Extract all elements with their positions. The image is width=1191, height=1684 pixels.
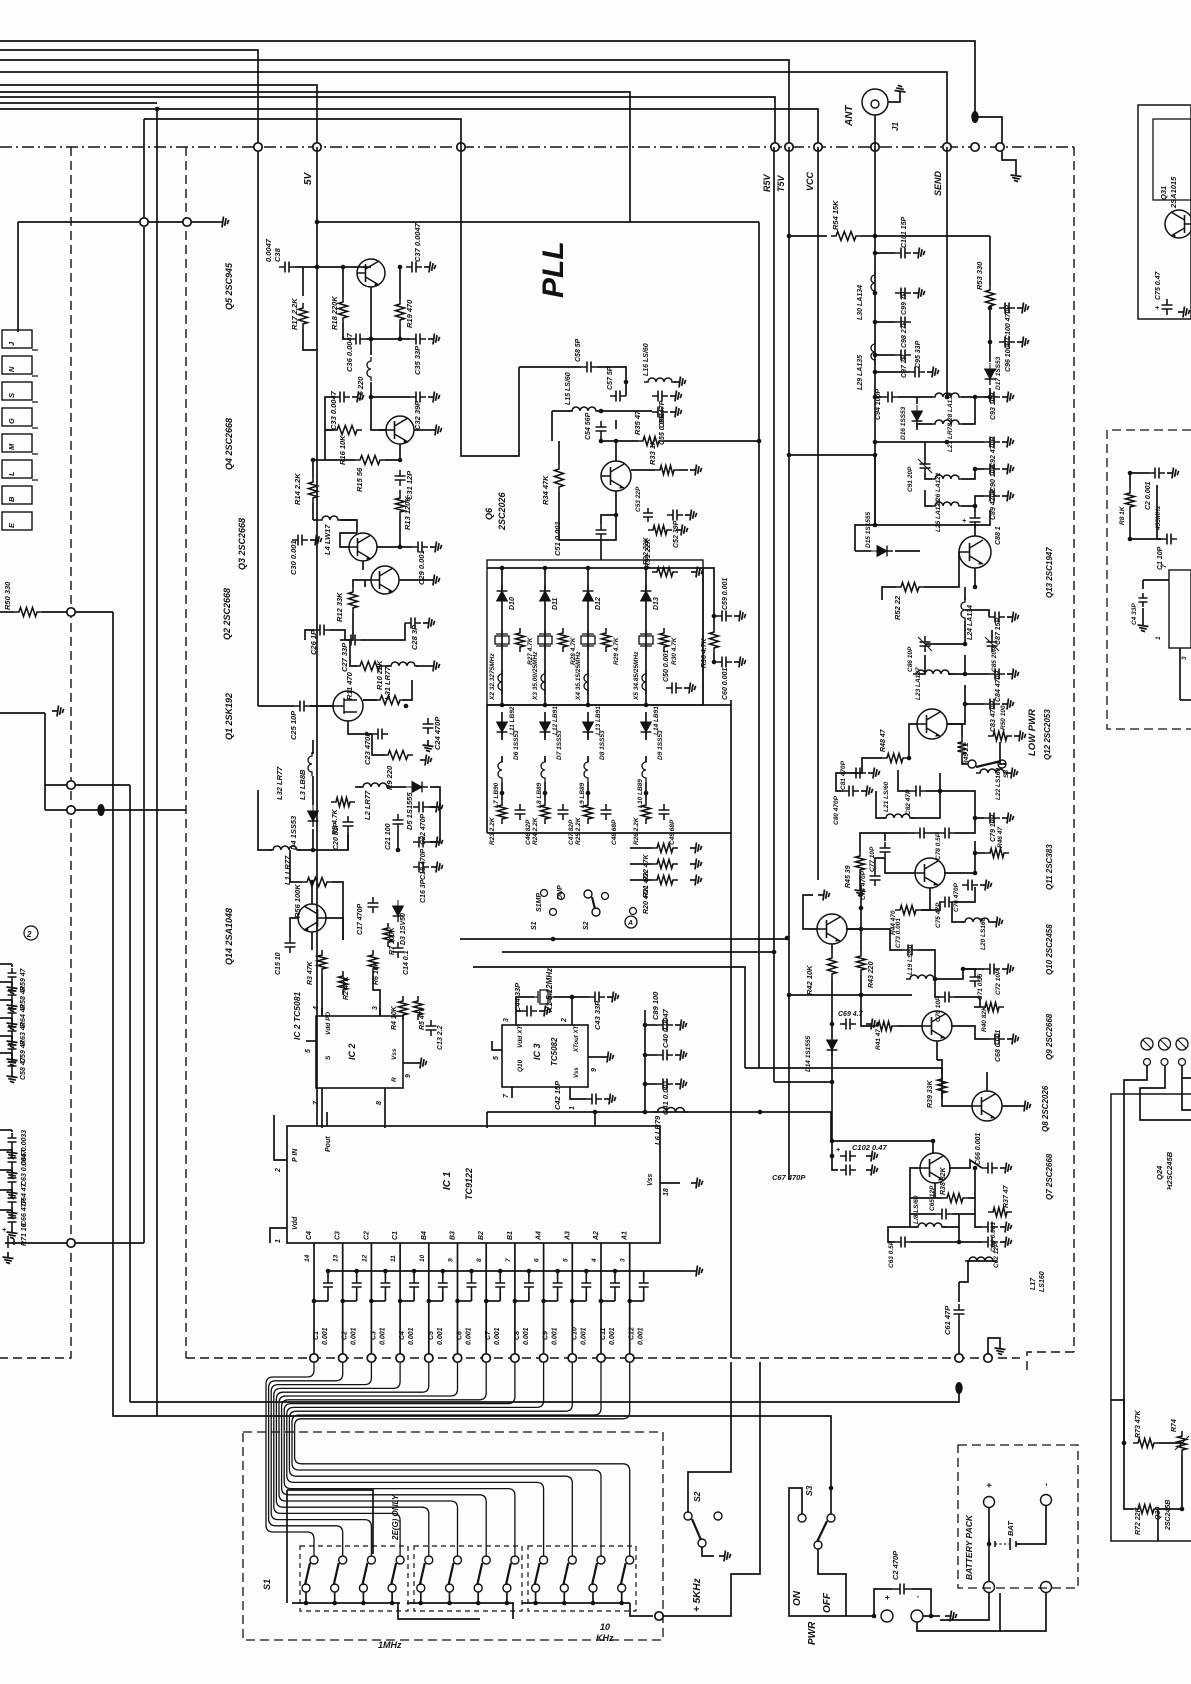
capacitor C71 <box>970 971 981 987</box>
inductor L7 <box>498 758 502 782</box>
svg-text:0.001: 0.001 <box>494 1327 501 1345</box>
svg-text:Q11 2SC383: Q11 2SC383 <box>1045 844 1054 890</box>
wire y1068 <box>745 1067 942 1069</box>
resistor R11 <box>355 662 385 671</box>
svg-text:L8 LB89: L8 LB89 <box>536 782 543 808</box>
wire s1 bus a <box>292 1602 400 1604</box>
ground <box>685 510 697 521</box>
svg-text:L15 LS/60: L15 LS/60 <box>565 372 572 405</box>
capacitor C9 <box>553 1278 563 1292</box>
svg-text:C4: C4 <box>399 1331 406 1340</box>
junction <box>599 439 604 444</box>
inductor L11 <box>498 670 502 694</box>
junction <box>873 370 878 375</box>
junction <box>873 395 878 400</box>
svg-text:Vss: Vss <box>391 1048 398 1060</box>
wire c78 mid <box>930 832 939 834</box>
junction <box>929 1614 934 1619</box>
capacitor C29 <box>412 542 428 553</box>
ground l31 <box>428 661 440 672</box>
node <box>183 218 191 226</box>
svg-text:5V: 5V <box>303 171 314 185</box>
svg-text:R6 10K: R6 10K <box>373 960 380 985</box>
capacitor C102 <box>840 1151 856 1162</box>
svg-text:R34 47K: R34 47K <box>541 475 550 505</box>
resistor R26 <box>642 800 651 824</box>
svg-text:C75 0.47: C75 0.47 <box>1155 270 1162 300</box>
junction <box>304 1601 309 1606</box>
svg-text:C91 20P: C91 20P <box>907 466 914 492</box>
wire l25b <box>962 496 984 506</box>
wire c51 v <box>600 540 602 560</box>
wire batout <box>940 1593 989 1620</box>
inductor L9 <box>584 758 588 782</box>
svg-text:D5 1S1555: D5 1S1555 <box>405 792 414 830</box>
capacitor C61 <box>954 1304 965 1320</box>
bat out1 <box>984 1582 995 1593</box>
wire r33 <box>631 469 655 471</box>
wire r11 l <box>350 640 357 666</box>
wire l24 top <box>964 587 966 600</box>
svg-text:C21 100: C21 100 <box>385 823 392 850</box>
wire q6 col line <box>615 420 617 429</box>
wire c26 <box>330 630 345 640</box>
svg-text:+: + <box>962 518 966 525</box>
junction <box>643 1110 648 1115</box>
diode D7 <box>540 716 551 738</box>
switch S3 <box>827 1514 835 1522</box>
wire q3c <box>377 546 412 548</box>
switch S1-2 <box>339 1556 347 1564</box>
resistor R20 <box>652 876 678 885</box>
svg-text:R50 100: R50 100 <box>1000 705 1007 730</box>
wire IC1 pin B4 <box>428 1243 430 1358</box>
ground <box>675 1079 687 1090</box>
inductor L12 <box>541 670 545 694</box>
transistor Q3 <box>349 533 377 561</box>
junction <box>1128 471 1133 476</box>
resistor R27 <box>516 628 525 652</box>
wire r41 l <box>861 995 873 1026</box>
svg-text:C5: C5 <box>428 1331 435 1340</box>
wire l5 bot <box>371 382 410 397</box>
wire c94b <box>898 396 932 398</box>
diode D16 <box>912 405 923 427</box>
svg-text:C99 7P: C99 7P <box>901 291 908 315</box>
wire c78 row <box>909 832 914 834</box>
svg-text:7: 7 <box>505 1258 512 1262</box>
resistor R14 <box>309 477 318 503</box>
junction <box>312 1299 317 1304</box>
svg-text:2SC245B: 2SC245B <box>1165 1500 1172 1531</box>
wire matrix bus <box>487 704 731 706</box>
wire r48 l <box>850 758 882 773</box>
junction <box>931 1139 936 1144</box>
capacitor C1b <box>1161 534 1177 545</box>
capacitor C63 <box>895 1237 911 1248</box>
capacitor C43 <box>589 992 605 1003</box>
wire cap7 <box>499 1271 501 1278</box>
switch S1-11 <box>597 1556 605 1564</box>
ground r9 <box>420 755 432 766</box>
right mid ic box <box>1169 570 1191 648</box>
resistor R50 <box>14 608 42 617</box>
capacitor C60 <box>716 657 732 668</box>
diode D6 <box>497 716 508 738</box>
resistor R33 <box>655 466 679 475</box>
wire c2a <box>874 1589 892 1616</box>
wire sw bus <box>460 938 787 940</box>
wire ant stub c97 <box>875 354 895 356</box>
svg-text:C4 33P: C4 33P <box>1131 603 1138 625</box>
inductor L30 <box>871 271 875 295</box>
svg-text:C9: C9 <box>543 1331 550 1340</box>
ground y222 <box>217 217 229 228</box>
svg-text:C38: C38 <box>273 247 282 262</box>
wire stair <box>660 1362 760 1616</box>
svg-text:+: + <box>883 1595 892 1600</box>
fet Q1 <box>333 691 363 721</box>
svg-text:S3: S3 <box>804 1485 814 1496</box>
junction <box>562 1601 567 1606</box>
left part C58 <box>8 1057 17 1071</box>
diode D4 <box>308 805 319 827</box>
junction <box>570 1299 575 1304</box>
svg-text:BAT: BAT <box>1006 1520 1015 1536</box>
svg-text:+: + <box>836 1147 840 1154</box>
wire IC1 pin A4 <box>543 1243 545 1358</box>
capacitor C27 <box>345 635 361 646</box>
wire r14b <box>312 503 314 520</box>
wire bundle <box>287 1362 544 1556</box>
inductor L6 <box>654 1108 689 1113</box>
junction <box>476 1601 481 1606</box>
svg-text:0.001: 0.001 <box>351 1327 358 1345</box>
svg-text:C81 470P: C81 470P <box>840 760 847 790</box>
ground q10b <box>818 890 830 901</box>
wire l18 l <box>910 1214 917 1227</box>
wire cap4 <box>413 1271 415 1278</box>
svg-text:1MHz: 1MHz <box>378 1640 402 1650</box>
svg-text:L9 LB89: L9 LB89 <box>579 782 586 808</box>
capacitor C87 <box>989 612 1005 623</box>
inductor L4 <box>318 516 342 520</box>
svg-text:C53 22P: C53 22P <box>635 486 642 512</box>
junction <box>419 1601 424 1606</box>
junction <box>712 660 717 665</box>
svg-text:C87 15P: C87 15P <box>995 617 1002 645</box>
resistor R31 <box>652 568 678 577</box>
wire l2 l <box>355 786 362 788</box>
svg-text:R24 2.2K: R24 2.2K <box>532 816 539 845</box>
svg-text:C11: C11 <box>600 1328 607 1340</box>
svg-text:Q2 2SC2668: Q2 2SC2668 <box>222 588 232 640</box>
svg-text:C40 0.0047: C40 0.0047 <box>661 1008 670 1048</box>
svg-text:Q12 2SC2053: Q12 2SC2053 <box>1043 709 1052 760</box>
wire q13 b <box>924 552 959 587</box>
inductor L25 <box>931 502 963 506</box>
wire q1 d <box>363 699 375 701</box>
svg-text:0.001: 0.001 <box>609 1327 616 1345</box>
PLL block dashed border bottom <box>186 1357 1020 1359</box>
transistor Q2 <box>371 566 399 594</box>
svg-text:-: - <box>1041 1483 1051 1486</box>
node on border <box>457 143 465 151</box>
transistor Q12 <box>917 709 947 739</box>
IC3 pin1 <box>569 1087 571 1098</box>
wire ant <box>888 97 900 102</box>
capacitor C78 <box>914 828 930 839</box>
resistor R53 <box>986 285 995 311</box>
wire bus 8 <box>0 50 258 147</box>
node pin A3 <box>568 1354 576 1362</box>
capacitor C38 <box>279 262 295 273</box>
svg-text:C89 100: C89 100 <box>651 991 660 1020</box>
svg-text:C3: C3 <box>335 1231 342 1240</box>
svg-text:C97 2P: C97 2P <box>901 354 908 378</box>
svg-text:C47 82P: C47 82P <box>568 819 575 845</box>
wire ic3 p1 <box>570 1098 586 1099</box>
capacitor C68 <box>989 1034 1005 1045</box>
wire IC1 pin A3 <box>571 1243 573 1358</box>
ground <box>310 535 322 546</box>
svg-text:B3: B3 <box>450 1231 457 1240</box>
transistor Q14 <box>298 904 326 932</box>
junction <box>643 1082 648 1087</box>
junction <box>543 791 548 796</box>
svg-text:R12 33K: R12 33K <box>335 592 344 622</box>
wire left v1 <box>113 612 157 1416</box>
resistor R29 <box>602 628 611 652</box>
wire s1 link <box>398 1603 480 1619</box>
junction <box>957 1240 962 1245</box>
ground R20 <box>690 875 702 886</box>
svg-text:455MHz: 455MHz <box>1155 505 1162 531</box>
S1 block dashed box <box>243 1432 663 1640</box>
wire cap6 <box>471 1271 473 1278</box>
wire c80 stub <box>836 773 850 791</box>
junction <box>973 816 978 821</box>
capacitor C13 <box>426 1020 437 1036</box>
wire c64 l <box>975 1214 982 1227</box>
junction <box>987 1542 992 1547</box>
resistor R18 <box>339 297 348 323</box>
svg-text:L7 LB90: L7 LB90 <box>493 782 500 808</box>
wire r14-r15 <box>313 459 325 461</box>
left part R71 <box>8 1213 17 1227</box>
pwr minus <box>911 1610 923 1622</box>
wire T5V rail <box>788 147 790 1180</box>
wire r53 top <box>875 235 990 237</box>
capacitor C74 <box>870 870 881 886</box>
node simp2 <box>550 909 557 916</box>
svg-text:R2 47K: R2 47K <box>343 975 350 1000</box>
wire r39 t <box>937 1060 942 1074</box>
wire long 1402 <box>130 1392 959 1402</box>
svg-text:Q14 2SA1048: Q14 2SA1048 <box>224 908 234 965</box>
svg-text:A4: A4 <box>536 1231 543 1241</box>
ground s2 <box>719 1551 731 1562</box>
transistor Q9 <box>922 1011 952 1041</box>
svg-text:R30 4.7K: R30 4.7K <box>671 636 678 665</box>
wire c65 r <box>952 1198 975 1214</box>
jack circle <box>1159 1038 1171 1050</box>
junction <box>757 439 762 444</box>
wire d15 <box>855 550 871 552</box>
svg-text:C69 4.7: C69 4.7 <box>838 1011 864 1018</box>
svg-text:10: 10 <box>600 1622 610 1632</box>
wire r38 r <box>968 1168 975 1198</box>
wire l31g <box>416 665 428 667</box>
junction <box>315 220 320 225</box>
wire c41 <box>645 1083 657 1085</box>
wire bundle <box>269 1362 343 1556</box>
wire c51 link <box>601 515 616 524</box>
switch S1-5 <box>425 1556 433 1564</box>
S1 sub dashed box <box>414 1546 522 1611</box>
wire sw <box>334 1592 336 1603</box>
wire d4 b <box>312 829 314 850</box>
resistor R24 <box>541 800 550 824</box>
wire l15 left <box>551 411 553 441</box>
wire c87 stub <box>965 610 989 617</box>
node s3 <box>798 1514 806 1522</box>
wire r45 v <box>860 833 885 851</box>
svg-text:R17 2.2K: R17 2.2K <box>290 298 299 330</box>
wire ric2 <box>1157 485 1161 539</box>
node pin C3 <box>339 1354 347 1362</box>
svg-text:B1: B1 <box>507 1231 514 1240</box>
wire l24 bot <box>925 621 965 644</box>
svg-text:L23 LA127: L23 LA127 <box>915 667 922 700</box>
svg-text:LS160: LS160 <box>1039 1271 1046 1292</box>
junction <box>500 791 505 796</box>
wire top bus T5V <box>0 60 789 147</box>
svg-text:D13: D13 <box>653 597 660 610</box>
junction <box>555 1269 560 1274</box>
svg-text:R23 2.2K: R23 2.2K <box>489 816 496 845</box>
junction <box>533 1601 538 1606</box>
wire c27-28 <box>361 623 405 640</box>
svg-text:C58 5P: C58 5P <box>575 338 582 362</box>
node on border <box>996 143 1004 151</box>
wire q8 up <box>986 1072 988 1091</box>
wire c78 r <box>955 818 975 833</box>
capacitor C32 <box>410 392 426 403</box>
junction <box>361 1601 366 1606</box>
ground R22 <box>690 843 702 854</box>
wire l21 r <box>911 791 940 818</box>
svg-text:R50 330: R50 330 <box>3 581 12 610</box>
wire q1 g <box>348 721 372 734</box>
wire c25 l <box>258 705 294 707</box>
capacitor C100 <box>999 303 1015 314</box>
svg-text:R18 220K: R18 220K <box>330 296 339 330</box>
wire q4 base <box>371 397 386 430</box>
junction <box>586 791 591 796</box>
svg-text:0.001: 0.001 <box>322 1327 329 1345</box>
wire l3 col <box>312 740 314 754</box>
wire c25 r <box>310 705 333 707</box>
svg-text:9: 9 <box>448 1258 455 1262</box>
capacitor C54 <box>596 421 607 437</box>
wire send v <box>946 147 948 397</box>
svg-text:C27 33P: C27 33P <box>340 642 349 672</box>
junction <box>1180 1507 1185 1512</box>
svg-text:C60 0.001: C60 0.001 <box>722 668 729 700</box>
junction <box>873 251 878 256</box>
svg-text:R37 47: R37 47 <box>1003 1184 1010 1208</box>
svg-text:13: 13 <box>333 1254 340 1262</box>
wire r <box>630 879 652 881</box>
wire l15 <box>552 410 572 412</box>
capacitor C48 <box>601 804 612 820</box>
svg-text:Q1 2SK192: Q1 2SK192 <box>224 693 234 740</box>
svg-text:6: 6 <box>534 1258 541 1262</box>
inductor L10 <box>642 758 646 782</box>
wire q30 wires <box>1140 1075 1165 1094</box>
wire jack1 <box>1124 1066 1147 1443</box>
junction <box>398 545 403 550</box>
ground <box>1011 170 1022 182</box>
svg-text:4: 4 <box>313 1006 320 1011</box>
capacitor C6 <box>467 1278 477 1292</box>
capacitor C65 <box>936 1209 952 1220</box>
wire r43 b <box>860 975 862 995</box>
svg-text:C66 0.001: C66 0.001 <box>975 1133 982 1165</box>
resistor R46 <box>985 849 1009 858</box>
svg-text:C13 2.2: C13 2.2 <box>437 1025 444 1050</box>
svg-text:M: M <box>7 443 16 450</box>
svg-text:C43 33P: C43 33P <box>593 1000 602 1030</box>
svg-text:VCC: VCC <box>805 171 815 191</box>
wire q6 e <box>601 491 616 540</box>
wire rr1 <box>1129 473 1131 488</box>
svg-text:2SC2026: 2SC2026 <box>497 491 507 531</box>
wire q14 <box>311 932 313 950</box>
wire q7 e <box>934 1183 936 1198</box>
wire r73r <box>1159 1442 1182 1444</box>
junction <box>591 1601 596 1606</box>
wire top bus R5V <box>0 97 775 147</box>
wire cap10 <box>585 1271 587 1278</box>
svg-text:+: + <box>984 1482 994 1488</box>
svg-text:Vdd PD: Vdd PD <box>325 1012 332 1035</box>
ground q2 <box>428 575 440 586</box>
svg-text:5: 5 <box>493 1056 500 1060</box>
switch S1-1 <box>310 1556 318 1564</box>
wire ant stub c95 <box>875 371 909 373</box>
IC1 pin18 <box>660 1182 680 1184</box>
junction <box>973 871 978 876</box>
svg-text:C14 0.1: C14 0.1 <box>403 950 410 975</box>
wire c74 t <box>875 858 885 870</box>
svg-text:P IN: P IN <box>292 1148 299 1162</box>
antenna jack J1 <box>862 89 888 115</box>
wire c20 b <box>347 832 349 850</box>
wire matrix bot <box>487 832 731 834</box>
resistor R54 <box>831 232 861 241</box>
wire c57 <box>597 367 626 396</box>
wire r15 <box>325 430 355 460</box>
capacitor C97 <box>895 350 911 361</box>
wire pll left rail <box>143 119 145 1243</box>
wire IC1 pin C3 <box>342 1243 344 1358</box>
wire bat return <box>917 1593 1000 1631</box>
wire c33 <box>325 397 334 430</box>
svg-text:C76 470P: C76 470P <box>953 882 960 912</box>
wire R64 <box>0 999 12 1001</box>
